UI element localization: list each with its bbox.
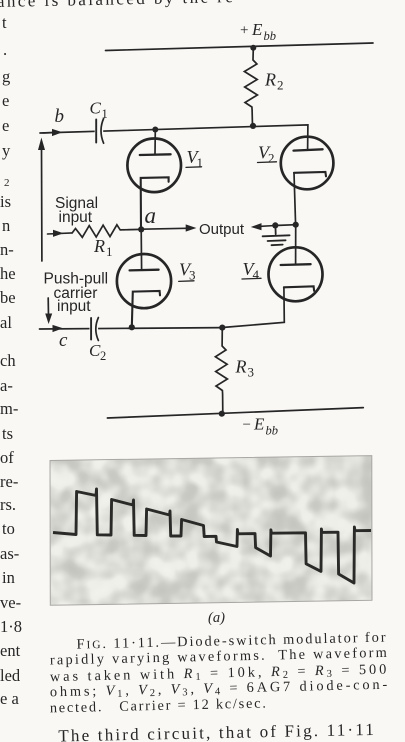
junction dot: V1 plate on b wire <box>152 127 158 133</box>
svg-text:+: + <box>240 23 248 39</box>
svg-text:3: 3 <box>248 364 255 379</box>
svg-text:in: in <box>2 568 15 587</box>
triode V2 (diode-connected) <box>281 137 334 225</box>
svg-text:Output: Output <box>199 221 245 238</box>
label V2 <box>258 143 275 166</box>
svg-text:2: 2 <box>268 151 275 166</box>
body text: bottom partial line <box>58 720 374 742</box>
svg-text:c: c <box>59 330 68 351</box>
label +Ebb <box>240 20 276 43</box>
svg-text:input: input <box>57 298 91 315</box>
svg-text:e a: e a <box>0 689 19 708</box>
svg-text:is: is <box>0 192 11 211</box>
resistor R3 <box>215 328 227 414</box>
svg-text:re-: re- <box>0 472 18 491</box>
triode V1 (diode-connected) <box>127 130 181 229</box>
label C1 <box>90 99 108 121</box>
node +Ebb rail (top supply line) <box>106 43 374 51</box>
arrow on c wire <box>53 325 64 332</box>
annotation arrow down (push-pull phase) <box>47 298 49 316</box>
wire: b input rail to V1/V2 plates <box>40 125 308 150</box>
label (a) <box>208 610 225 626</box>
triode V4 (diode-connected) <box>222 247 322 327</box>
label Output <box>199 221 245 238</box>
annotation arrow up (push-pull phase) <box>41 148 43 261</box>
wire: c input rail <box>40 328 223 329</box>
svg-text:2: 2 <box>277 77 284 92</box>
svg-text:e: e <box>2 116 9 135</box>
svg-text:E: E <box>253 415 265 434</box>
svg-text:as-: as- <box>0 544 19 563</box>
junction dot: R2 top on +Ebb rail <box>250 45 256 51</box>
label V4 <box>243 259 260 282</box>
svg-text:ve-: ve- <box>0 593 21 612</box>
figure caption <box>50 630 388 717</box>
svg-text:E: E <box>251 20 263 39</box>
label R1 <box>93 236 113 259</box>
body text: left-edge fragments of adjacent column <box>0 13 22 708</box>
svg-text:.: . <box>3 40 7 59</box>
svg-text:R: R <box>264 69 276 89</box>
svg-text:−: − <box>243 417 251 433</box>
svg-text:ance is balanced by the re: ance is balanced by the re <box>0 0 233 11</box>
label Push-pull carrier input <box>44 271 109 315</box>
svg-text:rs.: rs. <box>0 495 16 514</box>
svg-text:n: n <box>2 216 10 235</box>
svg-text:R: R <box>93 236 105 256</box>
svg-text:of: of <box>0 448 14 467</box>
svg-text:nected. Carrier = 12 kc/sec.: nected. Carrier = 12 kc/sec. <box>50 696 266 717</box>
node a dot <box>138 226 144 232</box>
body text: top partial line <box>0 0 233 11</box>
svg-text:bb: bb <box>264 29 277 43</box>
label V3 <box>179 260 196 283</box>
svg-text:a-: a- <box>0 376 13 395</box>
wire + arrow: node a to Output (right-pointing) <box>141 227 186 230</box>
svg-text:ts: ts <box>2 424 13 443</box>
svg-text:ch: ch <box>0 351 16 370</box>
label b <box>55 106 65 127</box>
junction dot: R3 top <box>219 325 225 331</box>
svg-text:2: 2 <box>4 177 10 189</box>
svg-text:b: b <box>55 106 65 127</box>
arrow to Output (left-pointing) <box>261 225 275 228</box>
resistor R2 <box>244 48 257 127</box>
svg-text:4: 4 <box>253 267 260 282</box>
svg-text:g: g <box>2 67 10 86</box>
capacitor C1 <box>95 124 104 138</box>
triode V3 (diode-connected) <box>117 229 171 327</box>
junction dot: V3 cathode on c wire <box>129 324 135 330</box>
svg-text:e: e <box>2 91 9 110</box>
wire: V4 plate lead <box>295 225 297 265</box>
svg-text:The third circuit, that of Fig: The third circuit, that of Fig. 11·11 <box>58 720 374 742</box>
svg-text:(a): (a) <box>208 610 225 626</box>
resistor R1 <box>72 225 141 238</box>
svg-text:1·8: 1·8 <box>0 617 22 636</box>
label R2 <box>264 69 284 92</box>
svg-text:led: led <box>0 666 21 685</box>
svg-text:to: to <box>2 519 15 538</box>
waveform trace <box>53 489 371 583</box>
label V1 <box>187 147 204 170</box>
node -Ebb rail (bottom supply line) <box>107 408 363 418</box>
svg-text:C: C <box>90 99 102 118</box>
junction dot: R2 bottom on b wire <box>250 123 256 129</box>
svg-text:1: 1 <box>102 107 108 121</box>
wire: junction to ground node <box>275 224 295 227</box>
svg-text:2: 2 <box>100 349 106 363</box>
svg-text:m-: m- <box>0 399 18 418</box>
arrow on b wire <box>52 129 63 136</box>
label Signal input <box>55 195 98 226</box>
svg-text:R: R <box>235 356 247 376</box>
label -Ebb <box>243 415 279 438</box>
svg-text:bb: bb <box>266 424 279 438</box>
label a <box>145 203 157 228</box>
svg-text:1: 1 <box>197 155 204 170</box>
photo border <box>50 456 372 606</box>
junction dot: V2 cathode / V4 plate <box>293 222 299 228</box>
label C2 <box>89 341 106 363</box>
svg-text:y: y <box>2 141 11 160</box>
svg-text:1: 1 <box>106 244 113 259</box>
capacitor C2 <box>90 322 99 336</box>
arrow: signal input <box>48 233 73 234</box>
oscillogram photo (a) <box>44 450 378 612</box>
ground symbol <box>263 225 290 245</box>
svg-text:a: a <box>145 203 157 228</box>
label c <box>59 330 68 351</box>
junction dot: R3 bottom on -Ebb rail <box>219 411 225 417</box>
svg-text:t: t <box>2 13 7 32</box>
label R3 <box>235 356 255 379</box>
svg-text:input: input <box>59 209 93 226</box>
svg-text:he: he <box>0 264 16 283</box>
svg-text:be: be <box>0 288 16 307</box>
junction dot: ground node <box>272 222 278 228</box>
svg-text:al: al <box>0 313 12 332</box>
svg-text:ent: ent <box>0 641 21 660</box>
svg-text:n-: n- <box>0 240 14 259</box>
